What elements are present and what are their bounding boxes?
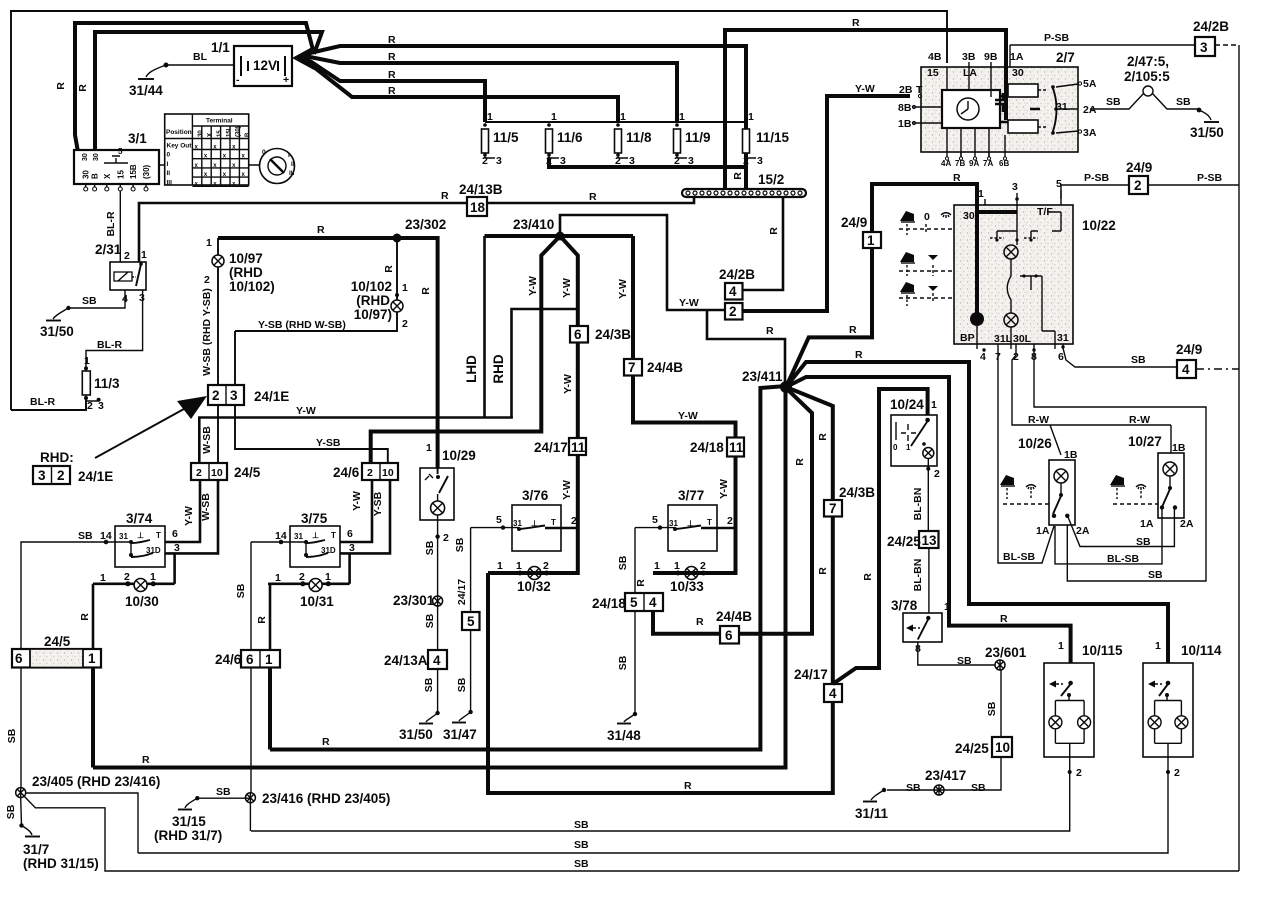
svg-text:3/1: 3/1 [128,131,147,146]
svg-text:11/6: 11/6 [557,130,583,145]
svg-text:R: R [768,227,780,235]
svg-text:SB: SB [906,782,921,794]
svg-text:15/2: 15/2 [758,172,784,187]
svg-text:31: 31 [513,519,522,528]
svg-text:10/33: 10/33 [670,579,704,594]
svg-text:1: 1 [100,572,106,584]
svg-text:R: R [317,224,325,236]
svg-text:10/102: 10/102 [351,279,392,294]
svg-text:3: 3 [98,400,104,412]
svg-text:24/6: 24/6 [215,652,242,667]
svg-text:31/50: 31/50 [1190,125,1224,140]
svg-text:10/26: 10/26 [1018,436,1052,451]
svg-text:13: 13 [922,533,938,548]
svg-text:10/115: 10/115 [1082,643,1123,658]
svg-text:T: T [331,531,336,540]
svg-text:R: R [635,579,647,587]
svg-text:24/3B: 24/3B [595,327,631,342]
svg-text:2: 2 [204,274,210,286]
svg-text:X: X [208,133,214,137]
svg-text:SB: SB [1131,354,1146,366]
svg-text:3/78: 3/78 [891,598,918,613]
svg-text:T: T [707,518,712,527]
svg-text:4: 4 [649,595,657,610]
svg-text:⊥: ⊥ [687,519,694,528]
svg-text:2: 2 [546,155,552,167]
svg-text:II: II [291,161,295,168]
svg-text:1: 1 [931,399,937,411]
svg-text:Y-SB: Y-SB [372,491,384,516]
svg-text:1: 1 [402,282,408,294]
svg-text:6: 6 [1058,351,1064,363]
svg-text:1: 1 [265,652,273,667]
svg-text:2: 2 [571,515,577,527]
svg-text:23/410: 23/410 [513,217,554,232]
svg-text:31/50: 31/50 [40,324,74,339]
svg-text:R: R [79,613,91,621]
svg-text:1: 1 [84,355,90,367]
svg-text:SB: SB [986,701,998,716]
svg-text:P-SB: P-SB [1197,172,1223,184]
svg-text:23/416 (RHD 23/405): 23/416 (RHD 23/405) [262,791,390,806]
svg-text:6: 6 [347,528,353,540]
svg-text:23/417: 23/417 [925,768,966,783]
svg-text:R: R [732,172,744,180]
svg-text:3: 3 [230,388,238,403]
svg-text:SB: SB [574,858,589,870]
svg-text:9A: 9A [969,159,979,168]
svg-text:SB: SB [1106,96,1121,108]
svg-text:3: 3 [757,155,763,167]
svg-text:Y-W: Y-W [855,83,875,95]
svg-text:P-SB: P-SB [1084,172,1110,184]
svg-text:4: 4 [729,284,737,299]
svg-text:3: 3 [1200,40,1208,55]
svg-text:Y-SB: Y-SB [316,437,341,449]
svg-text:2A: 2A [1180,518,1194,530]
svg-text:SB: SB [456,677,468,692]
svg-text:SB: SB [617,555,629,570]
svg-text:T: T [916,84,923,96]
svg-text:3: 3 [174,542,180,554]
svg-text:Y-W: Y-W [296,405,316,417]
svg-text:31: 31 [669,519,678,528]
svg-text:31D: 31D [146,546,161,555]
svg-text:2: 2 [934,468,940,480]
svg-text:24/9: 24/9 [841,215,867,230]
svg-text:2/47:5,: 2/47:5, [1127,54,1169,69]
svg-text:6: 6 [574,327,582,342]
svg-text:SB: SB [424,613,436,628]
svg-text:3/77: 3/77 [678,488,704,503]
svg-text:31: 31 [294,532,303,541]
svg-text:3/75: 3/75 [301,511,328,526]
svg-text:3: 3 [496,155,502,167]
svg-text:15: 15 [927,67,939,79]
svg-text:10/30: 10/30 [125,594,159,609]
svg-text:T: T [156,531,161,540]
svg-text:SB: SB [1176,96,1191,108]
svg-text:B: B [91,173,100,179]
svg-text:1B: 1B [898,118,912,130]
svg-text:1: 1 [679,111,685,123]
svg-text:24/2B: 24/2B [719,267,755,282]
svg-text:R: R [684,780,692,792]
svg-text:⊥: ⊥ [531,519,538,528]
svg-text:24/13B: 24/13B [459,182,503,197]
svg-text:6: 6 [172,528,178,540]
svg-text:24/5: 24/5 [234,465,261,480]
svg-text:10/102): 10/102) [229,279,275,294]
svg-text:4: 4 [1182,362,1190,377]
svg-text:3A: 3A [1083,127,1097,139]
svg-text:10/97): 10/97) [354,307,392,322]
svg-text:5: 5 [630,595,638,610]
svg-text:R: R [589,191,597,203]
svg-text:III: III [289,170,295,177]
svg-text:7B: 7B [955,159,965,168]
svg-text:R: R [862,573,874,581]
svg-text:10/31: 10/31 [300,594,334,609]
svg-text:2: 2 [700,560,706,572]
svg-text:24/17: 24/17 [456,579,468,605]
svg-text:5: 5 [1056,178,1062,190]
svg-text:2: 2 [615,155,621,167]
svg-text:6: 6 [725,628,733,643]
svg-text:X: X [103,173,112,179]
svg-text:31: 31 [119,532,128,541]
svg-text:SB: SB [454,537,466,552]
svg-text:3: 3 [688,155,694,167]
svg-text:2: 2 [727,515,733,527]
svg-text:SB: SB [423,677,435,692]
svg-text:II: II [167,170,171,177]
svg-text:0: 0 [924,211,930,223]
svg-text:24/18: 24/18 [592,596,626,611]
svg-text:Y-W: Y-W [562,374,574,394]
svg-text:4: 4 [829,686,837,701]
svg-text:(RHD: (RHD [356,293,390,308]
svg-text:3: 3 [1012,181,1018,193]
svg-text:SB: SB [957,655,972,667]
svg-text:BL-R: BL-R [30,396,55,408]
svg-text:5: 5 [496,514,502,526]
svg-text:R: R [817,567,829,575]
svg-text:SB: SB [1136,536,1151,548]
svg-text:SB: SB [235,583,247,598]
svg-text:3: 3 [349,542,355,554]
svg-text:SB: SB [971,782,986,794]
svg-text:2: 2 [196,467,202,479]
svg-text:10: 10 [211,467,223,479]
svg-text:BL-BN: BL-BN [912,559,924,592]
svg-text:Position: Position [166,129,192,136]
svg-text:10/24: 10/24 [890,397,924,412]
svg-text:24/9: 24/9 [1176,342,1202,357]
svg-text:R: R [441,190,449,202]
svg-text:(RHD 31/7): (RHD 31/7) [154,828,222,843]
svg-text:BL-SB: BL-SB [1003,551,1035,563]
svg-text:2: 2 [743,155,749,167]
svg-text:RHD: RHD [491,354,506,383]
svg-text:2: 2 [87,400,93,412]
svg-text:1: 1 [150,571,156,583]
svg-text:SB: SB [216,786,231,798]
svg-text:1: 1 [551,111,557,123]
svg-text:R-W: R-W [1028,414,1049,426]
svg-text:7: 7 [829,501,837,516]
svg-text:R: R [388,85,396,97]
svg-text:7: 7 [628,360,636,375]
svg-text:1: 1 [620,111,626,123]
svg-text:R: R [142,754,150,766]
svg-text:2: 2 [402,318,408,330]
svg-text:B: B [245,132,251,137]
svg-text:SB: SB [1148,569,1163,581]
svg-text:15: 15 [116,170,125,179]
svg-text:Y-W: Y-W [561,480,573,500]
svg-text:1A: 1A [1010,51,1024,63]
svg-text:24/9: 24/9 [1126,160,1152,175]
svg-text:11/15: 11/15 [756,130,790,145]
svg-text:24/4B: 24/4B [716,609,752,624]
svg-text:2: 2 [1174,767,1180,779]
svg-text:30: 30 [198,130,204,137]
svg-text:R: R [420,287,432,295]
svg-text:III: III [167,179,173,186]
svg-text:23/302: 23/302 [405,217,446,232]
svg-text:2: 2 [124,571,130,583]
svg-text:1: 1 [325,571,331,583]
svg-text:11/8: 11/8 [626,130,652,145]
svg-text:Terminal: Terminal [206,118,233,125]
svg-text:11: 11 [571,440,586,455]
svg-text:R: R [383,265,395,273]
svg-text:1: 1 [654,560,660,572]
svg-text:30: 30 [963,210,975,222]
svg-text:24/1E: 24/1E [78,469,113,484]
svg-text:(30): (30) [236,126,242,137]
svg-text:Y-SB (RHD W-SB): Y-SB (RHD W-SB) [258,319,346,331]
svg-text:R: R [256,616,268,624]
svg-text:1: 1 [748,111,754,123]
svg-text:24/2B: 24/2B [1193,19,1229,34]
svg-text:Y-W: Y-W [679,297,699,309]
svg-text:15B: 15B [129,164,138,179]
svg-text:31/7: 31/7 [23,842,49,857]
svg-text:2A: 2A [1083,104,1097,116]
svg-text:1B: 1B [1064,449,1078,461]
svg-text:11/5: 11/5 [493,130,519,145]
svg-text:4: 4 [980,351,986,363]
svg-text:31L: 31L [994,333,1013,345]
svg-text:0: 0 [893,443,898,452]
svg-text:6: 6 [15,651,23,666]
svg-text:23/601: 23/601 [985,645,1027,660]
svg-text:SB: SB [5,804,17,819]
svg-text:1: 1 [1058,640,1064,652]
svg-text:31/11: 31/11 [855,806,889,821]
svg-text:3/76: 3/76 [522,488,549,503]
svg-text:2/31: 2/31 [95,242,122,257]
svg-text:30: 30 [1012,67,1024,79]
svg-text:30: 30 [82,153,89,161]
svg-text:Y-W: Y-W [678,410,698,422]
svg-text:1B: 1B [1172,442,1186,454]
svg-text:14: 14 [100,530,112,542]
svg-text:12V: 12V [253,58,277,73]
svg-text:24/18: 24/18 [690,440,724,455]
svg-text:R: R [766,325,774,337]
svg-text:24/17: 24/17 [794,667,828,682]
svg-text:1: 1 [516,560,522,572]
svg-text:1: 1 [867,233,875,248]
svg-text:23/411: 23/411 [742,369,783,384]
svg-text:30: 30 [82,170,91,179]
svg-text:R: R [849,324,857,336]
svg-text:Y-W: Y-W [183,506,195,526]
svg-text:R: R [794,458,806,466]
svg-text:5: 5 [652,514,658,526]
svg-text:BL-BN: BL-BN [912,488,924,521]
svg-text:10: 10 [995,740,1010,755]
svg-text:3: 3 [629,155,635,167]
svg-text:24/5: 24/5 [44,634,71,649]
svg-text:1: 1 [426,442,432,454]
svg-text:10/114: 10/114 [1181,643,1222,658]
svg-text:Y-W: Y-W [718,479,730,499]
svg-text:BL-R: BL-R [105,211,117,236]
svg-text:23/405 (RHD 23/416): 23/405 (RHD 23/416) [32,774,160,789]
svg-text:30L: 30L [1013,333,1032,345]
svg-text:BL-SB: BL-SB [1107,553,1139,565]
svg-text:W-SB (RHD Y-SB): W-SB (RHD Y-SB) [201,288,213,376]
svg-text:2: 2 [124,250,130,262]
svg-text:2: 2 [729,304,737,319]
svg-text:7A: 7A [983,159,993,168]
svg-text:18: 18 [470,200,486,215]
svg-text:5A: 5A [1083,78,1097,90]
svg-text:I: I [288,152,290,159]
svg-text:2A: 2A [1076,525,1090,537]
svg-text:1: 1 [906,443,911,452]
svg-text:BL-R: BL-R [97,339,122,351]
svg-text:Y-W: Y-W [561,278,573,298]
svg-text:R-W: R-W [1129,414,1150,426]
svg-text:SB: SB [82,295,97,307]
svg-text:3: 3 [560,155,566,167]
svg-text:2: 2 [1076,767,1082,779]
svg-text:0: 0 [167,152,171,159]
svg-text:9B: 9B [984,51,998,63]
svg-text:24/25: 24/25 [887,534,921,549]
svg-text:2B: 2B [899,84,913,96]
svg-text:R: R [953,172,961,184]
svg-text:2: 2 [443,532,449,544]
svg-text:10: 10 [382,467,394,479]
svg-text:2: 2 [674,155,680,167]
svg-text:1: 1 [88,651,96,666]
svg-text:2: 2 [1134,178,1142,193]
svg-text:1A: 1A [1140,518,1154,530]
svg-text:2/105:5: 2/105:5 [1124,69,1170,84]
svg-text:0: 0 [262,149,266,156]
svg-text:24/1E: 24/1E [254,389,289,404]
svg-text:2: 2 [299,571,305,583]
svg-text:SB: SB [574,819,589,831]
svg-text:1: 1 [674,560,680,572]
svg-text:⊥: ⊥ [137,531,144,540]
svg-text:4A: 4A [941,159,951,168]
svg-text:1: 1 [978,188,984,200]
svg-text:1: 1 [1155,640,1161,652]
svg-text:⊥: ⊥ [312,531,319,540]
svg-text:1: 1 [497,560,503,572]
svg-text:W-SB: W-SB [201,426,213,454]
svg-text:8B: 8B [898,102,912,114]
svg-text:3: 3 [38,468,46,483]
svg-text:24/4B: 24/4B [647,360,683,375]
svg-text:5: 5 [118,147,123,156]
svg-text:Y-W: Y-W [617,279,629,299]
svg-text:15I: 15I [226,128,232,137]
svg-text:P-SB: P-SB [1044,32,1070,44]
svg-text:BP: BP [960,332,975,344]
svg-text:Y-W: Y-W [527,276,539,296]
svg-text:10/27: 10/27 [1128,434,1162,449]
svg-text:24/17: 24/17 [534,440,568,455]
svg-text:(RHD 31/15): (RHD 31/15) [23,856,99,871]
svg-text:24/3B: 24/3B [839,485,875,500]
svg-text:31: 31 [1057,332,1069,344]
svg-text:3/74: 3/74 [126,511,153,526]
svg-text:31/15: 31/15 [172,814,206,829]
svg-text:23/301: 23/301 [393,593,435,608]
svg-text:10/97: 10/97 [229,251,263,266]
svg-text:31: 31 [1056,101,1068,113]
svg-text:1: 1 [141,249,147,261]
svg-text:6B: 6B [999,159,1009,168]
svg-text:SB: SB [424,540,436,555]
svg-text:1: 1 [487,111,493,123]
svg-text:SB: SB [78,530,93,542]
svg-text:31/44: 31/44 [129,83,163,98]
svg-text:2: 2 [367,467,373,479]
svg-text:14: 14 [275,530,287,542]
svg-text:31/50: 31/50 [399,727,433,742]
svg-text:4: 4 [433,653,441,668]
svg-text:R: R [855,349,863,361]
svg-text:R: R [852,17,860,29]
svg-text:(RHD: (RHD [229,265,263,280]
svg-text:24/13A: 24/13A [384,653,428,668]
svg-text:5: 5 [467,614,475,629]
svg-text:2/7: 2/7 [1056,50,1075,65]
svg-text:W-SB: W-SB [200,493,212,521]
svg-text:BL: BL [193,51,208,63]
svg-text:R: R [388,51,396,63]
svg-text:RHD:: RHD: [40,450,74,465]
svg-text:31/48: 31/48 [607,728,641,743]
svg-text:R: R [817,433,829,441]
svg-text:31D: 31D [321,546,336,555]
svg-text:R: R [55,82,67,90]
svg-text:R: R [388,69,396,81]
svg-text:(30): (30) [142,164,151,179]
svg-text:24/6: 24/6 [333,465,360,480]
svg-text:15: 15 [217,130,223,137]
svg-text:SB: SB [617,655,629,670]
